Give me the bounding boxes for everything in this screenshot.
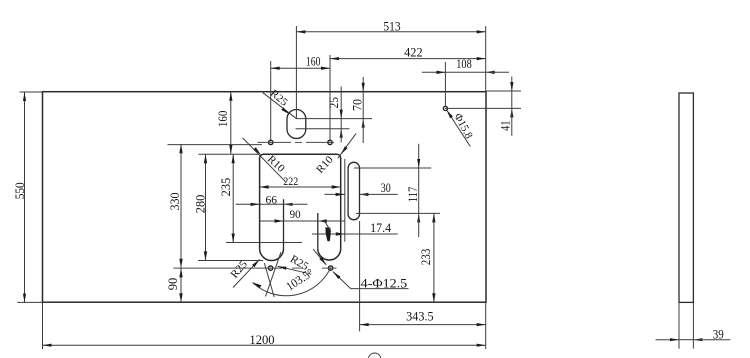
hole 2 of 4-D12.5 — [328, 140, 332, 144]
dimension 25 — [327, 87, 343, 143]
extension line slot bottom arc center — [356, 212, 440, 214]
extension line slot top arc center — [354, 167, 431, 169]
angle ray left (steep cross line A) — [266, 252, 282, 297]
extension line plate right above — [485, 26, 487, 92]
extension line top hole right — [329, 55, 331, 140]
svg-text:108: 108 — [456, 56, 472, 71]
dimension 233 — [419, 213, 436, 302]
leader D15.8 — [447, 110, 475, 147]
dimension 1200 — [43, 332, 486, 347]
extension line 343.5 left — [359, 221, 361, 331]
dimension 330 — [168, 144, 183, 268]
svg-text:1200: 1200 — [249, 332, 274, 347]
central cutout with R10 top corners and rounded legs — [260, 154, 341, 260]
extension line 330 top — [168, 144, 263, 146]
dimension 70 — [351, 77, 365, 143]
svg-text:422: 422 — [404, 44, 423, 59]
svg-text:4-Φ12.5: 4-Φ12.5 — [361, 277, 408, 291]
dimension 108 — [422, 56, 509, 74]
svg-text:41: 41 — [498, 120, 512, 131]
side view outline (39 thick) — [679, 93, 693, 302]
dimension 66 — [236, 194, 308, 206]
svg-text:90: 90 — [290, 209, 301, 221]
center line through top holes — [258, 141, 335, 143]
svg-text:117: 117 — [406, 187, 420, 203]
leader R25 bottom right — [278, 253, 312, 274]
svg-text:233: 233 — [419, 249, 433, 266]
svg-text:343.5: 343.5 — [406, 309, 434, 324]
extension line 280 bottom — [198, 260, 263, 262]
plate outline (front view 1200x550) — [43, 92, 487, 303]
diameter leader 4-D12.5 upper segment — [313, 249, 326, 265]
partial circle bottom center — [368, 353, 381, 358]
extension line plate bottom left — [17, 301, 42, 303]
hole 1 of 4-D12.5 — [269, 140, 273, 144]
svg-text:39: 39 — [713, 326, 724, 341]
extension line 513 left (slot center) — [295, 26, 297, 119]
dimension 235 — [219, 154, 235, 242]
hole 3 of 4-D12.5 — [268, 266, 272, 270]
dimension 90 left — [166, 268, 183, 302]
extension line top slot upper arc center — [296, 118, 372, 120]
svg-text:330: 330 — [168, 193, 182, 211]
dimension 117 — [406, 144, 420, 237]
leader R10 left corner — [243, 138, 288, 182]
svg-text:235: 235 — [219, 178, 233, 197]
extension line top slot lower arc center — [296, 128, 350, 130]
dimension 513 — [296, 19, 485, 34]
extension line plate right below — [485, 302, 487, 349]
extension line 17.4 right — [344, 159, 346, 242]
dimension 160 top — [271, 54, 330, 70]
dimension 343.5 — [360, 309, 486, 327]
extension line plate top right — [486, 90, 521, 92]
dimension 39 — [656, 326, 731, 341]
diameter leader 4-D12.5 lower segment — [333, 272, 409, 291]
svg-text:550: 550 — [13, 182, 27, 199]
extension line plate left below — [42, 302, 44, 349]
svg-text:160: 160 — [306, 54, 321, 69]
dimension 160 left — [216, 92, 233, 154]
dimension 17.4 — [312, 221, 398, 236]
dimension 90 center — [260, 209, 345, 223]
svg-text:222: 222 — [283, 174, 298, 188]
dimension 41 — [498, 77, 513, 136]
right slot (obround 30 wide) — [348, 162, 359, 220]
svg-text:66: 66 — [265, 194, 277, 206]
angle arc 103.5 — [253, 265, 331, 295]
small arrow cluster near right leg — [325, 222, 331, 241]
svg-text:30: 30 — [381, 181, 391, 195]
extension line 235 bottom — [226, 242, 302, 244]
svg-text:70: 70 — [351, 99, 365, 111]
dimension 550 — [13, 92, 27, 303]
svg-text:280: 280 — [193, 195, 207, 214]
hole 4 of 4-D12.5 — [328, 266, 332, 270]
extension line top hole left — [270, 61, 272, 140]
extension line 108 left (hole) — [444, 62, 446, 106]
svg-text:25: 25 — [327, 97, 341, 109]
extension line cutout top edge left — [198, 153, 259, 155]
extension line hole D15.8 center right — [445, 107, 521, 109]
center line through bottom holes — [173, 267, 336, 269]
dimension 222 — [260, 174, 341, 189]
svg-text:513: 513 — [383, 19, 400, 34]
leader R25 bottom left — [228, 258, 259, 287]
dimension 422 — [330, 44, 486, 60]
angle ray left (steep cross line B) — [264, 263, 274, 297]
svg-text:160: 160 — [216, 111, 230, 128]
svg-text:90: 90 — [166, 278, 180, 291]
dimension 30 — [324, 181, 397, 196]
hole D15.8 — [443, 106, 447, 110]
dimension 280 — [193, 154, 207, 260]
leader R10 right corner — [314, 134, 356, 176]
svg-text:17.4: 17.4 — [370, 221, 392, 235]
side view extension lines — [679, 302, 693, 348]
extension line plate top left — [20, 91, 43, 93]
leader R25 top slot — [263, 88, 297, 119]
top slot (obround with R25 ends) — [287, 110, 306, 139]
